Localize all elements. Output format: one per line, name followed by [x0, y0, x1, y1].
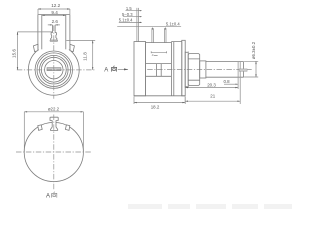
dim 18.2 arrows: [134, 102, 185, 103]
side view body bottom line: [134, 95, 185, 97]
svg-text:18.2: 18.2: [151, 104, 160, 109]
bottom view body circle: [24, 122, 83, 181]
svg-text:15.6: 15.6: [12, 49, 17, 58]
dim 11.8 arrows: [92, 40, 93, 70]
dim 11.8 extension line: [66, 39, 95, 41]
side view centerline: [137, 68, 252, 70]
side view flange: [182, 40, 185, 96]
front view tab inner left line: [41, 15, 43, 50]
side view bushing: [200, 61, 206, 78]
A direction leader line: [118, 68, 128, 70]
dim 18.2 line: [134, 102, 185, 104]
front view right lug: [70, 44, 75, 51]
svg-text:2.6: 2.6: [52, 19, 59, 24]
dim phi22.2 extension lines: [24, 112, 83, 152]
svg-text:11.8: 11.8: [83, 52, 88, 61]
front view shaft spool profile in tab: [51, 25, 57, 40]
bottom view right lug: [65, 125, 69, 130]
dim phi22.2 arrows: [24, 111, 83, 112]
svg-text:A: A: [104, 67, 108, 73]
svg-text:A: A: [46, 193, 50, 199]
bottom view horizontal centerline: [16, 151, 92, 153]
dim 5.1 left line: [119, 21, 142, 23]
front view spool base line: [50, 40, 58, 41]
dim 18.2 extension lines: [134, 97, 185, 105]
front view tab white fill: [38, 14, 70, 49]
dim 15.6 line: [17, 32, 19, 70]
side view pin3 arrowhead: [165, 27, 166, 30]
side view middle block: [146, 42, 172, 96]
dim 5.1 baseline long line: [117, 26, 181, 28]
svg-text:1.5: 1.5: [126, 6, 132, 11]
side view nut facet lines: [188, 59, 200, 80]
side view marking label line: [151, 51, 166, 53]
side view left block: [134, 42, 146, 96]
dim 1.5 line: [126, 10, 142, 12]
side view pin1: [137, 8, 139, 42]
svg-text:5.1±0.4: 5.1±0.4: [119, 18, 133, 23]
bottom view vertical centerline: [53, 115, 55, 191]
dim phi6.3 extension lines: [244, 61, 258, 77]
side view shaft end face: [243, 62, 245, 78]
A view label xiang glyph: [52, 192, 57, 198]
side view center window: [146, 64, 172, 77]
front view tab outline: [38, 15, 70, 51]
bottom view spool profile: [50, 117, 58, 130]
dim 0.8 leader: [224, 83, 238, 85]
svg-text:ø22.2: ø22.2: [48, 106, 60, 111]
front view vertical centerline: [53, 26, 55, 99]
side view marking squiggle: [152, 54, 158, 55]
dim 21 arrows: [185, 101, 240, 102]
front view left lug: [33, 44, 38, 51]
dim 21 extension from flange: [184, 97, 186, 104]
dim 2.6 lines and arrows: [48, 24, 60, 26]
dim 11.8 line: [92, 40, 94, 70]
svg-text:0.8: 0.8: [223, 79, 230, 84]
dim 15.6 extension line: [18, 31, 53, 33]
dim 20.3 line: [185, 87, 238, 89]
side view shaft: [206, 62, 244, 78]
side view washer: [185, 52, 188, 87]
svg-text:21: 21: [210, 94, 215, 99]
dim 0.8 groove extension lines: [238, 78, 240, 104]
dim 20.3 arrows: [185, 87, 238, 88]
front view ring r18.9: [35, 51, 72, 88]
side view shaft groove: [238, 62, 240, 77]
front view tab inner right line: [65, 15, 67, 50]
dim phi6.3 arrows: [255, 61, 256, 77]
svg-text:5−0.3: 5−0.3: [122, 12, 133, 17]
dim phi22.2 line: [24, 111, 83, 113]
front view horizontal centerline: [17, 69, 95, 71]
side view pin3: [165, 28, 167, 42]
svg-text:9.4: 9.4: [51, 10, 58, 15]
side view pin2 arrowhead: [152, 27, 153, 30]
dim 12.2 arrows: [38, 8, 70, 9]
front view ring r17: [37, 53, 71, 87]
bottom view left lug: [38, 125, 42, 130]
dim 9.4 arrows: [42, 15, 66, 16]
dim 9.4 line: [42, 14, 66, 16]
front view shaft slot bar: [47, 68, 61, 71]
front view ring r12.6: [41, 57, 66, 82]
dim 1.5 arrow: [139, 10, 141, 11]
svg-text:ø6.3±0.2: ø6.3±0.2: [251, 41, 256, 59]
svg-text:12.2: 12.2: [51, 3, 60, 8]
dim 5-0.3 arrow: [139, 16, 141, 17]
dim phi6.3 line: [255, 61, 257, 77]
dim 5-0.3 line: [123, 16, 142, 18]
faint watermark: [128, 204, 292, 209]
front view shaft circle r9.1: [45, 60, 63, 78]
dim 15.6 arrows: [17, 32, 18, 70]
A direction xiang glyph: [111, 66, 116, 72]
side view right block: [171, 42, 181, 96]
front view ring r14.5: [40, 55, 69, 84]
side view pin2: [152, 28, 154, 42]
svg-text:20.3: 20.3: [207, 83, 216, 88]
dim 12.2 line: [38, 9, 70, 14]
A direction arrowhead: [124, 68, 128, 70]
dim 0.8 arrow: [236, 84, 239, 85]
front view body outer circle: [28, 44, 79, 95]
side view nut: [188, 54, 200, 86]
dim 5.1 left arrow: [139, 22, 141, 23]
dim 21 line: [185, 100, 240, 102]
svg-text:5.1±0.4: 5.1±0.4: [166, 22, 180, 27]
side view shaft end slot: [239, 69, 247, 71]
